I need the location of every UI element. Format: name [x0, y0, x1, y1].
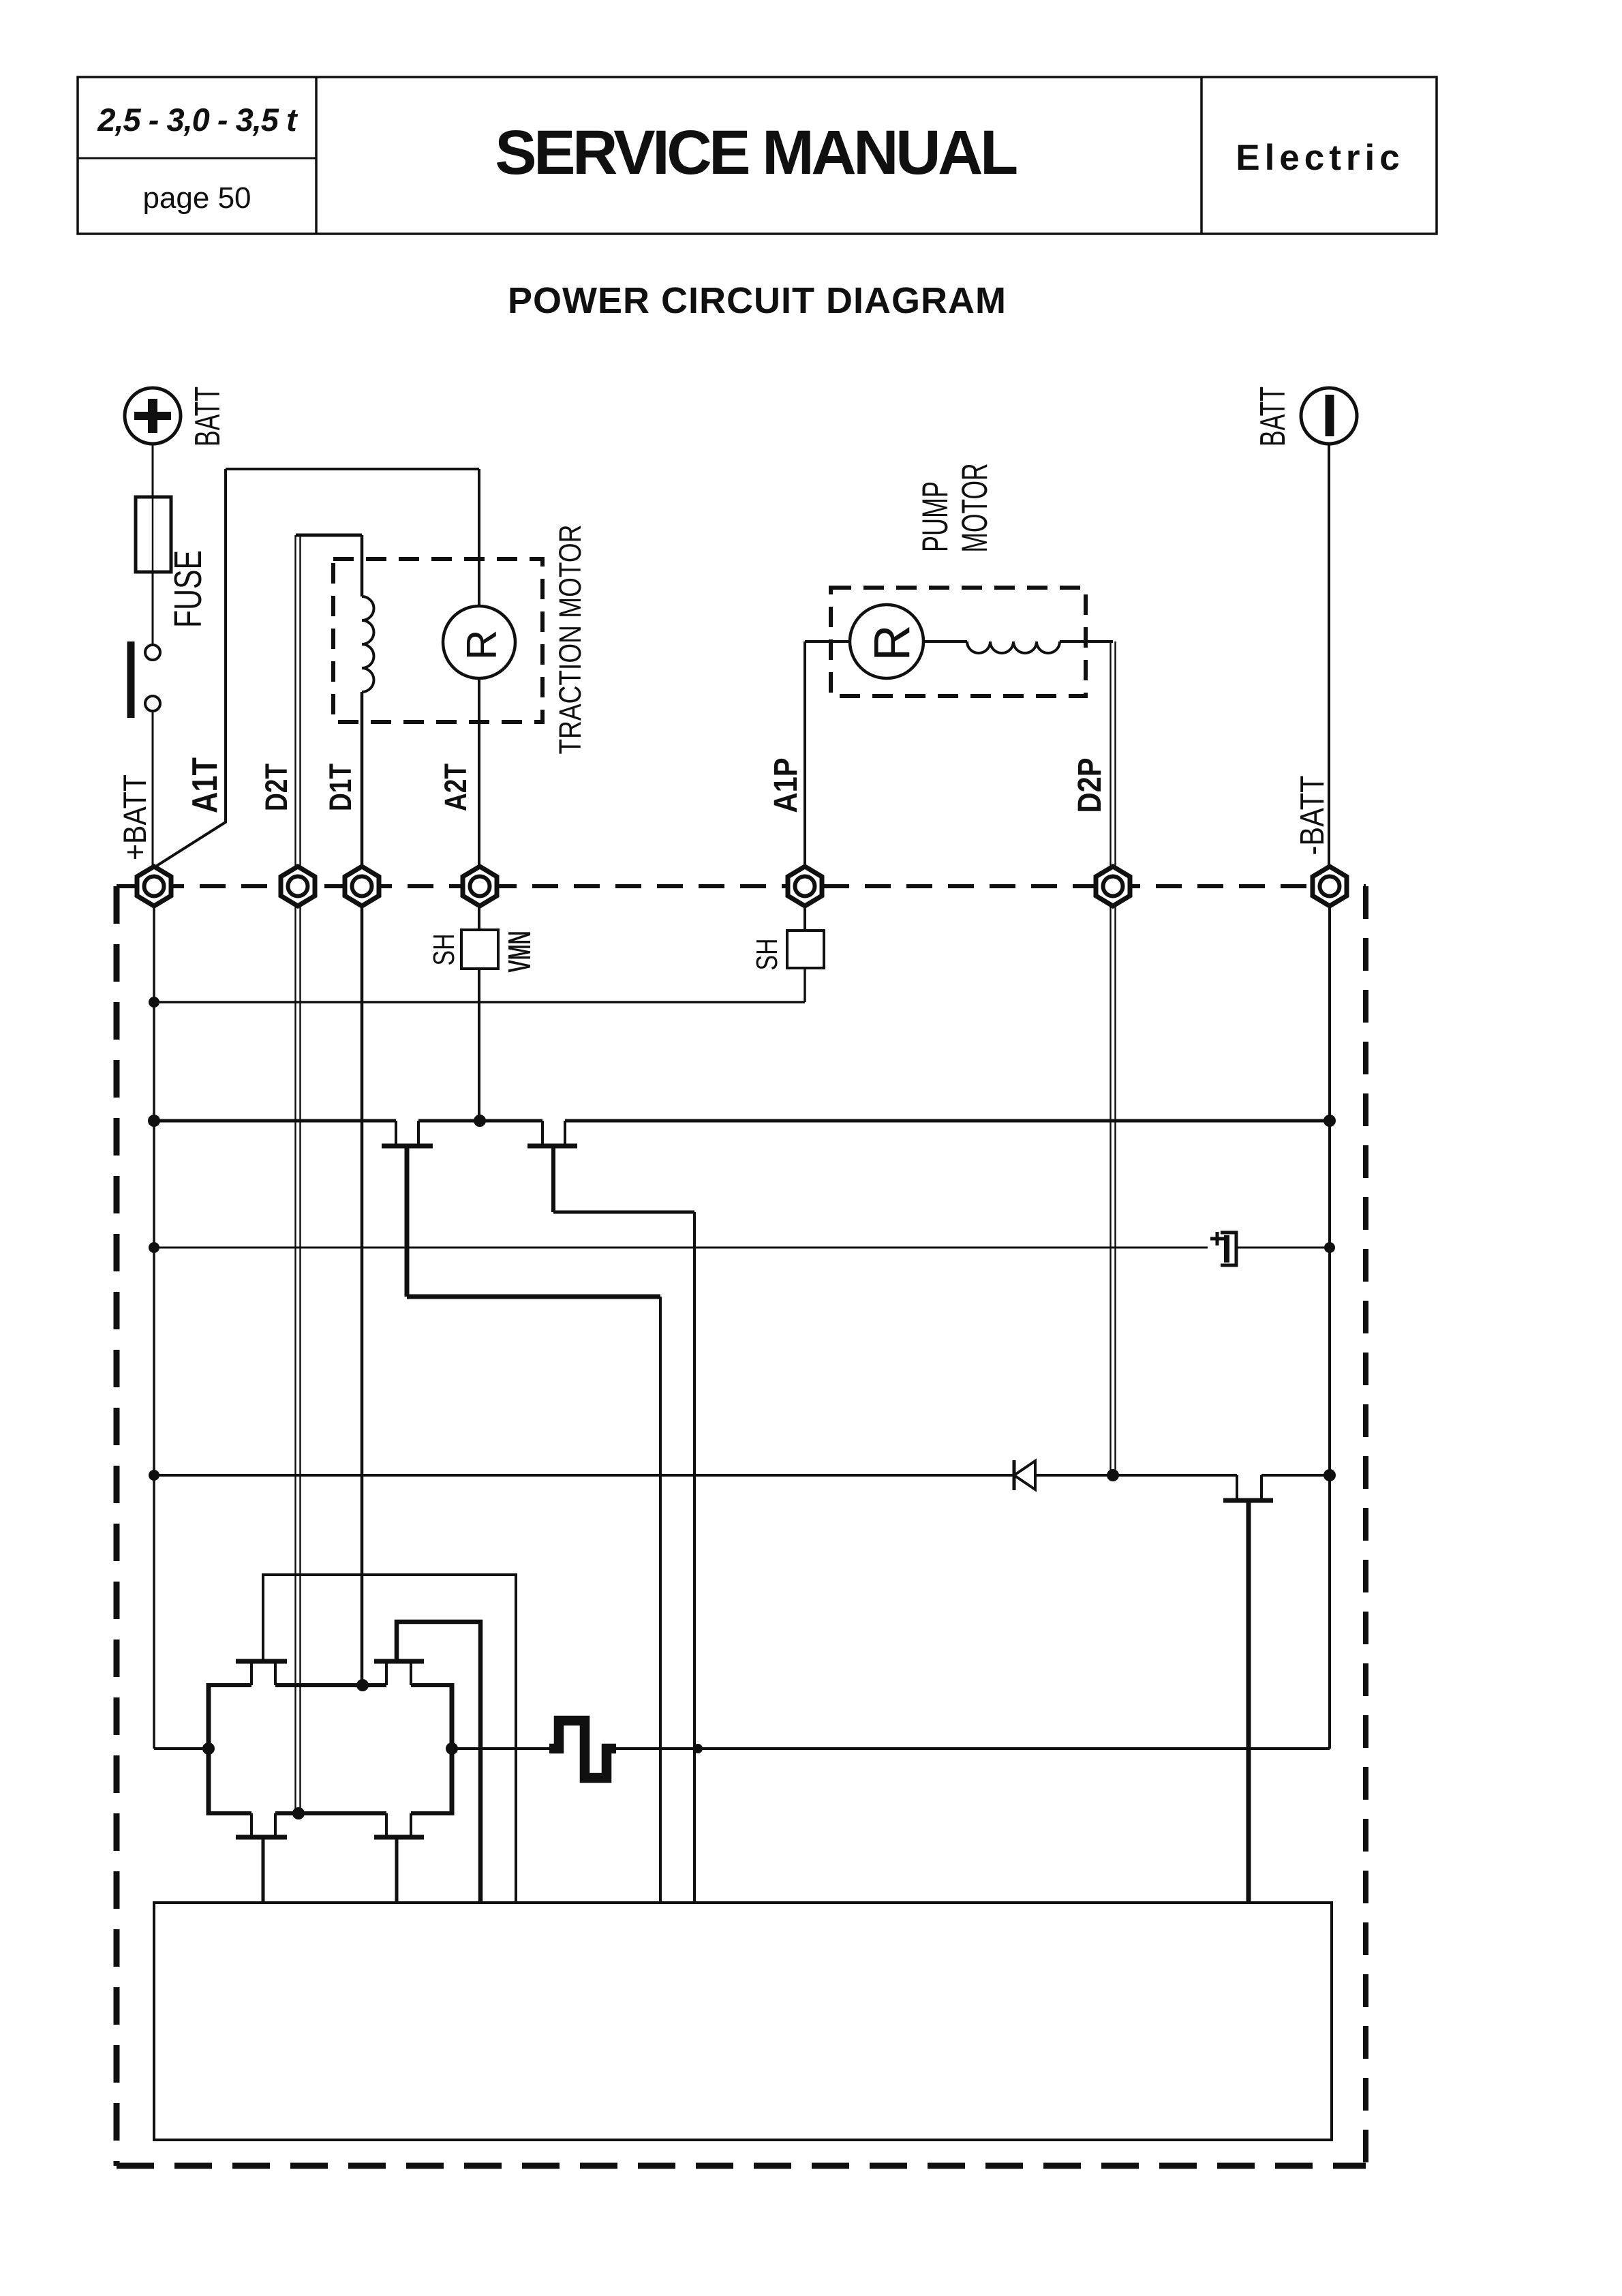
node +BATT pump line	[149, 1470, 159, 1481]
svg-text:R: R	[459, 630, 506, 661]
wire chopper bus left	[154, 1119, 396, 1123]
H-bridge right edge	[450, 1683, 455, 1815]
svg-text:POWER CIRCUIT DIAGRAM: POWER CIRCUIT DIAGRAM	[508, 280, 1007, 321]
battery negative terminal circle	[1301, 388, 1357, 444]
wire capacitor line	[154, 1247, 1208, 1249]
node D2P pump line	[1107, 1469, 1119, 1481]
node H-bridge right	[446, 1742, 458, 1755]
H-bridge bottom edge	[209, 1811, 452, 1815]
transistor Q5 pump chopper	[1236, 1475, 1238, 1498]
terminal +BATT	[137, 866, 171, 906]
node A2T chopper bus	[474, 1115, 486, 1127]
H-bridge top edge	[209, 1683, 452, 1687]
node -BATT chopper bus	[1323, 1115, 1336, 1127]
wire pump armature feed	[805, 640, 850, 643]
fuse	[136, 497, 171, 572]
svg-text:SH: SH	[750, 939, 784, 971]
wire armature top	[226, 468, 479, 470]
traction field coil	[362, 596, 374, 692]
svg-text:R: R	[863, 624, 920, 661]
wire H-bridge gate top-right run	[397, 1622, 480, 1903]
svg-text:PUMP: PUMP	[915, 481, 955, 552]
svg-text:TRACTION MOTOR: TRACTION MOTOR	[553, 525, 587, 755]
wire Q1 gate run	[407, 1295, 660, 1299]
svg-text:SH: SH	[427, 934, 461, 966]
wire A1T top to traction R	[478, 469, 480, 606]
current pulse symbol	[549, 1721, 616, 1778]
controller dashed box right	[1363, 886, 1368, 2166]
wire shunt to chopper bus	[478, 969, 480, 1121]
node +BATT capacitor line	[149, 1242, 159, 1253]
svg-text:A1T: A1T	[185, 757, 225, 813]
node D2T H-bridge bottom	[292, 1807, 305, 1819]
header left cell horizontal divider	[78, 157, 316, 160]
wire D1T terminal to H-bridge	[361, 905, 364, 1685]
svg-text:D2P: D2P	[1072, 758, 1108, 813]
svg-text:page 50: page 50	[142, 181, 251, 215]
transistor Q6 field bottom-left	[251, 1813, 275, 1835]
svg-text:A1P: A1P	[768, 758, 804, 813]
wire -BATT vertical	[1328, 444, 1330, 867]
node -BATT pump line	[1323, 1469, 1336, 1481]
node +BATT chopper bus	[148, 1115, 160, 1127]
wire traction R to A2T terminal	[478, 678, 480, 867]
node H-bridge left	[202, 1742, 215, 1755]
transistor Q3 field top-left	[251, 1663, 275, 1685]
shunt SH pump	[787, 931, 824, 968]
svg-text:SERVICE MANUAL: SERVICE MANUAL	[495, 118, 1017, 187]
terminal D2T	[281, 866, 315, 906]
wire shunt return to +BATT line	[154, 1001, 805, 1003]
svg-text:-BATT: -BATT	[1294, 776, 1331, 856]
node -BATT capacitor line	[1324, 1242, 1335, 1253]
wire pulse symbol to -BATT line	[616, 1747, 1330, 1750]
battery positive terminal circle	[125, 388, 181, 444]
node gate line crossing	[693, 1744, 703, 1753]
wire pump coil to D2P corner	[1060, 640, 1113, 643]
wire D2T double line lower	[296, 905, 301, 1813]
wire fuse to key switch	[152, 572, 154, 645]
wire chopper bus mid	[418, 1119, 542, 1123]
wire Q2 gate run	[553, 1211, 694, 1214]
wire A1P vertical	[804, 641, 806, 867]
wire H-bridge gate top-left run	[263, 1575, 516, 1903]
node D1T H-bridge top	[356, 1679, 369, 1691]
controller dashed box left	[114, 886, 120, 2166]
transistor Q7 field bottom-right	[386, 1813, 411, 1835]
wire D2P double line upper	[1111, 641, 1116, 867]
pump motor armature R	[850, 605, 923, 678]
wire A1P terminal to shunt	[804, 905, 806, 931]
wire D1T to terminal	[361, 692, 364, 867]
traction motor armature R	[443, 606, 515, 678]
svg-text:BATT: BATT	[188, 387, 228, 447]
node +BATT shunt return	[149, 997, 159, 1008]
header right cell divider	[1200, 77, 1203, 234]
svg-text:Electric: Electric	[1236, 138, 1405, 178]
logic unit box	[154, 1903, 1332, 2140]
capacitor symbol	[1210, 1237, 1224, 1241]
svg-text:BATT: BATT	[1253, 387, 1293, 447]
terminal A1P	[788, 866, 822, 906]
svg-text:2,5 - 3,0 - 3,5 t: 2,5 - 3,0 - 3,5 t	[97, 102, 299, 138]
header left cell divider	[315, 77, 318, 234]
wire pump line	[154, 1474, 1014, 1477]
wire field top jog D2T	[296, 534, 362, 537]
svg-text:+BATT: +BATT	[117, 774, 153, 860]
controller dashed box bottom	[117, 2163, 1366, 2169]
wire key switch to +BATT terminal	[152, 711, 154, 867]
svg-text:MOTOR: MOTOR	[955, 464, 995, 553]
header outer box	[78, 77, 1437, 234]
pump motor dashed box	[831, 588, 1086, 696]
wire D2P double line lower	[1111, 905, 1116, 1475]
H-bridge left edge	[206, 1683, 211, 1815]
svg-text:D2T: D2T	[259, 764, 294, 811]
key switch	[145, 645, 160, 660]
wire -BATT terminal down	[1328, 905, 1331, 1749]
transistor Q4 field top-right	[386, 1663, 411, 1685]
wire A1T riser	[157, 469, 226, 866]
transistor Q2 traction chopper	[541, 1121, 544, 1144]
wire -BATT return to H-bridge	[452, 1747, 549, 1750]
transistor Q1 traction chopper	[395, 1121, 397, 1144]
svg-text:A2T: A2T	[438, 764, 473, 811]
wire +BATT terminal down	[153, 905, 155, 1749]
wire battery plus to fuse	[152, 444, 154, 497]
wire D2T double line upper	[296, 535, 301, 867]
wire pump shunt down	[804, 968, 806, 1002]
svg-text:VMN: VMN	[502, 931, 537, 973]
diode pump freewheel	[1013, 1460, 1016, 1490]
svg-text:FUSE: FUSE	[166, 550, 210, 628]
traction motor dashed box	[333, 559, 542, 722]
terminal D2P	[1096, 866, 1130, 906]
terminal A2T	[463, 866, 497, 906]
svg-text:D1T: D1T	[323, 764, 358, 811]
wire +BATT corner to H-bridge	[154, 1747, 209, 1750]
shunt SH traction	[461, 930, 498, 969]
wire chopper bus right	[565, 1119, 1330, 1123]
controller dashed box top (terminal row line)	[117, 884, 1366, 888]
wire pump R to coil	[923, 640, 967, 643]
pump field coil	[967, 641, 1060, 653]
terminal -BATT	[1313, 866, 1347, 906]
wire D1T upper	[361, 535, 364, 596]
wire A2T terminal to shunt	[478, 905, 480, 930]
terminal D1T	[345, 866, 379, 906]
